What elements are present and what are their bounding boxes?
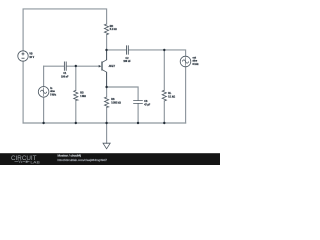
svg-text:htto://circuitlab.com/c/aej964: htto://circuitlab.com/c/aej964mg39d7 xyxy=(58,159,108,162)
svg-text:10 V: 10 V xyxy=(29,57,34,59)
svg-text:RG: RG xyxy=(80,92,84,94)
svg-text:100 nF: 100 nF xyxy=(61,76,69,78)
svg-text:VB: VB xyxy=(29,54,33,56)
svg-text:5 kHz: 5 kHz xyxy=(50,94,57,96)
svg-text:3.592 kΩ: 3.592 kΩ xyxy=(111,103,121,105)
svg-text:47 µF: 47 µF xyxy=(144,104,151,107)
svg-text:Mostrar / circuit4j: Mostrar / circuit4j xyxy=(58,155,82,158)
svg-text:1 MΩ: 1 MΩ xyxy=(80,96,86,98)
svg-text:LAB: LAB xyxy=(30,160,40,164)
svg-text:RS: RS xyxy=(111,99,115,101)
svg-text:JFET: JFET xyxy=(109,64,116,68)
svg-text:8 kHz: 8 kHz xyxy=(193,64,200,66)
svg-text:5.1 kΩ: 5.1 kΩ xyxy=(168,97,175,99)
svg-text:sine: sine xyxy=(50,91,55,93)
svg-text:CS: CS xyxy=(144,101,148,103)
svg-text:RD: RD xyxy=(110,26,114,28)
svg-text:100 nF: 100 nF xyxy=(123,61,131,63)
svg-text:out: out xyxy=(193,56,197,59)
svg-text:5.1 kΩ: 5.1 kΩ xyxy=(110,29,117,31)
svg-text:sine: sine xyxy=(193,61,198,63)
